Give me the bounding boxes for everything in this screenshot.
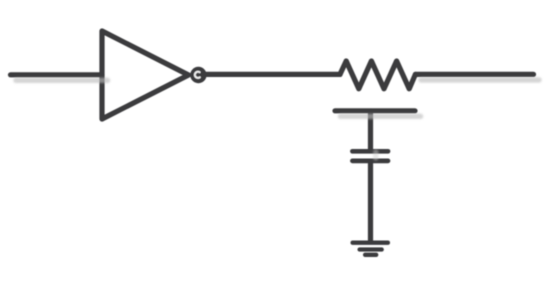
wire capacitor to ground [368, 163, 373, 242]
ground bar 2 [360, 247, 382, 251]
op-amp U1 (inverter / NOT gate triangle) [102, 31, 189, 119]
ground bar 1 [353, 241, 388, 245]
ground bar 3 [365, 253, 376, 257]
wire shadow (input wire) [16, 78, 108, 83]
wire shadow (junction bar) [341, 114, 421, 119]
wire input (left horizontal wire into inverter) [11, 72, 103, 77]
capacitor C1 top plate [352, 149, 388, 154]
wire output right (resistor to right edge) [415, 72, 533, 77]
wire output (bubble to resistor) [200, 72, 340, 77]
wire bar to capacitor [368, 112, 373, 150]
node bubble (inversion bubble at gate output) [190, 67, 206, 83]
resistor R1 (zigzag) [340, 61, 415, 89]
wire shadow (bar-to-capacitor stub) [373, 152, 378, 158]
capacitor C1 bottom plate [352, 159, 388, 164]
node bar (junction bar below resistor) [335, 108, 415, 113]
wire shadow (right output wire) [421, 77, 539, 82]
